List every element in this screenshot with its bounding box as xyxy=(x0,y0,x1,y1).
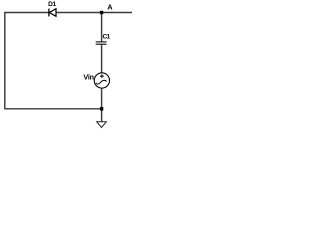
diode D1 xyxy=(49,9,56,17)
node A junction dot xyxy=(100,11,103,14)
wire top-right horizontal xyxy=(56,12,132,14)
wire vertical from node A to capacitor xyxy=(101,13,103,42)
svg-text:D1: D1 xyxy=(48,1,56,8)
voltage source Vin xyxy=(94,73,109,88)
junction dot bottom xyxy=(100,107,103,110)
svg-text:Vin: Vin xyxy=(83,73,93,82)
capacitor C1 xyxy=(96,42,107,44)
wire top-left horizontal xyxy=(5,12,49,14)
ground xyxy=(97,122,107,128)
wire vertical from capacitor to source xyxy=(101,44,103,72)
svg-text:C1: C1 xyxy=(103,33,111,40)
wire vertical from source to ground xyxy=(101,88,103,122)
svg-text:A: A xyxy=(107,3,113,12)
wire left vertical xyxy=(4,12,6,110)
wire bottom horizontal xyxy=(5,108,102,110)
